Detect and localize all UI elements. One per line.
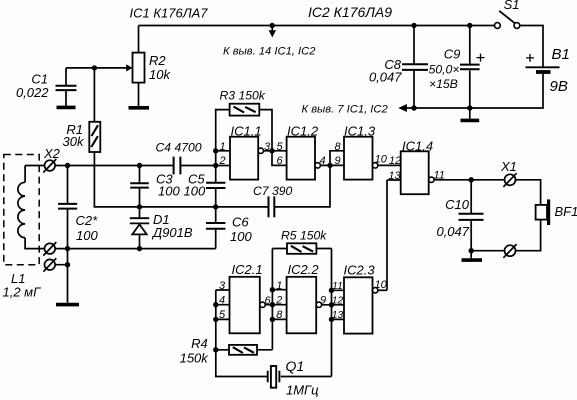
svg-text:150k: 150k: [180, 351, 210, 366]
svg-text:10: 10: [375, 279, 388, 291]
svg-text:S1: S1: [504, 0, 520, 12]
svg-text:8: 8: [276, 309, 283, 321]
svg-text:4: 4: [320, 155, 326, 167]
svg-text:5: 5: [219, 309, 226, 321]
svg-text:×15В: ×15В: [429, 77, 458, 91]
svg-text:R4: R4: [191, 336, 208, 351]
svg-text:100: 100: [76, 228, 98, 243]
svg-text:30k: 30k: [63, 134, 85, 149]
svg-text:9В: 9В: [550, 78, 568, 95]
svg-text:11: 11: [434, 170, 445, 182]
svg-text:0,047: 0,047: [436, 224, 469, 239]
svg-text:R2: R2: [149, 53, 166, 68]
svg-text:IC2.2: IC2.2: [288, 262, 320, 277]
svg-text:R3 150k: R3 150k: [220, 89, 266, 103]
svg-text:13: 13: [388, 170, 401, 182]
svg-text:Д901В: Д901В: [151, 225, 193, 240]
svg-text:IC2 К176ЛА9: IC2 К176ЛА9: [308, 4, 392, 20]
svg-text:C9: C9: [444, 47, 461, 62]
svg-text:1МГц: 1МГц: [286, 383, 319, 398]
svg-text:IC2.3: IC2.3: [344, 262, 376, 277]
svg-text:IC1.3: IC1.3: [344, 124, 376, 139]
svg-text:1: 1: [219, 141, 225, 153]
svg-text:50,0×: 50,0×: [429, 63, 460, 77]
svg-text:8: 8: [334, 141, 341, 153]
svg-text:X1: X1: [500, 159, 517, 174]
svg-text:2: 2: [275, 295, 282, 307]
svg-text:C7 390: C7 390: [253, 184, 293, 198]
svg-text:IC1.2: IC1.2: [287, 124, 319, 139]
svg-text:B1: B1: [552, 46, 570, 63]
svg-text:C4 4700: C4 4700: [156, 141, 202, 155]
svg-text:9: 9: [334, 155, 340, 167]
svg-text:10: 10: [375, 153, 388, 165]
svg-text:0,022: 0,022: [16, 85, 49, 100]
svg-text:К выв. 14 IC1, IC2: К выв. 14 IC1, IC2: [223, 46, 316, 58]
svg-text:К выв. 7 IC1, IC2: К выв. 7 IC1, IC2: [302, 104, 389, 116]
svg-text:3: 3: [264, 141, 271, 153]
svg-text:12: 12: [332, 295, 344, 306]
svg-text:0,047: 0,047: [369, 70, 402, 85]
svg-text:IC2.1: IC2.1: [232, 262, 263, 277]
svg-text:100: 100: [230, 229, 252, 244]
svg-text:3: 3: [219, 280, 226, 292]
svg-text:12: 12: [389, 155, 401, 167]
svg-text:6: 6: [276, 155, 283, 167]
svg-text:5: 5: [276, 141, 283, 153]
svg-text:R5 150k: R5 150k: [281, 229, 327, 243]
svg-text:IC1.1: IC1.1: [231, 124, 262, 139]
svg-text:Q1: Q1: [286, 358, 305, 374]
svg-text:BF1: BF1: [555, 204, 577, 219]
svg-text:2: 2: [218, 155, 225, 167]
svg-text:1,2 мГ: 1,2 мГ: [3, 285, 42, 300]
svg-text:9: 9: [320, 295, 326, 307]
svg-text:11: 11: [332, 281, 343, 292]
svg-text:1: 1: [276, 280, 282, 292]
svg-text:X2: X2: [43, 146, 61, 161]
svg-text:IC1.4: IC1.4: [402, 139, 433, 154]
svg-text:13: 13: [332, 310, 344, 321]
svg-text:IC1 К176ЛА7: IC1 К176ЛА7: [130, 6, 209, 21]
svg-text:100: 100: [184, 184, 206, 199]
svg-text:10k: 10k: [149, 67, 171, 82]
svg-text:4: 4: [219, 295, 225, 307]
svg-text:C2*: C2*: [76, 213, 99, 228]
svg-text:C6: C6: [232, 215, 249, 230]
svg-text:6: 6: [265, 295, 272, 307]
svg-text:C10: C10: [445, 197, 470, 212]
svg-text:100: 100: [158, 184, 180, 199]
